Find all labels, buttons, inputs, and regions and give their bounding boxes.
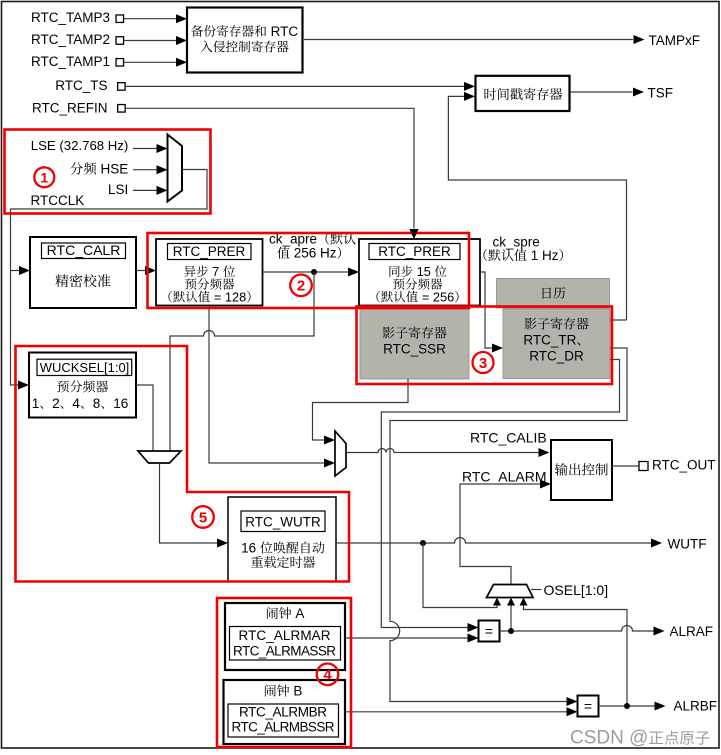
annotation red box 4 alarms	[217, 598, 351, 747]
svg-text:RTC_ALRMASSR: RTC_ALRMASSR	[233, 643, 336, 658]
wire HSE to mux	[133, 169, 157, 171]
svg-text:RTC_REFIN: RTC_REFIN	[32, 100, 108, 115]
wire RTCCLK net	[11, 170, 208, 386]
svg-text:16: 16	[241, 541, 260, 556]
svg-text:RTC_ALRMAR: RTC_ALRMAR	[239, 628, 331, 643]
svg-text:TAMPxF: TAMPxF	[649, 33, 701, 48]
pin RTC_REFIN	[118, 105, 126, 113]
wire RTC_TAMP2 to backup box	[124, 40, 177, 42]
wire calendar out to timestamp riser	[610, 319, 627, 321]
wire ALRBF output	[599, 705, 656, 707]
wire LSE to mux	[133, 148, 157, 150]
mux OSEL output selector	[487, 585, 534, 598]
wire ck_apre tap to wakeup mux	[170, 272, 314, 451]
block WUCKSEL prescaler (预分频器 1 2 4 8 16)	[29, 353, 136, 418]
svg-text:ALRAF: ALRAF	[670, 624, 714, 639]
wire ALRA flag to OSEL	[510, 605, 512, 631]
pin RTC_TAMP1	[116, 59, 124, 67]
comparator alarm A	[479, 621, 500, 642]
svg-text:LSE (32.768 Hz): LSE (32.768 Hz)	[31, 138, 129, 153]
svg-text:RTC_TR: RTC_TR	[523, 333, 576, 348]
svg-text:RTC_SSR: RTC_SSR	[383, 342, 446, 357]
svg-text:RTC_CALIB: RTC_CALIB	[470, 430, 547, 446]
svg-text:2: 2	[52, 396, 60, 411]
wire LSI to mux	[133, 189, 157, 191]
annotation red box 2 prescalers	[148, 233, 470, 308]
block alarm B (闹钟B RTC_ALRMBR RTC_ALRMBSSR)	[224, 680, 346, 744]
wire ALRAF output	[500, 626, 655, 631]
wire RTC_REFIN to sync prescaler	[125, 108, 414, 228]
wire calibration to async prescaler	[136, 270, 146, 272]
block shadow register RTC_SSR (影子寄存器)	[360, 309, 469, 379]
pin RTC_TAMP2	[116, 37, 124, 45]
svg-text:RTC_OUT: RTC_OUT	[652, 457, 716, 472]
block backup registers and RTC tamper control (备份寄存器和RTC入侵控制寄存器)	[187, 8, 303, 73]
mux clock source selector	[168, 135, 183, 202]
wire RTC_ALARM from OSEL mux	[460, 484, 540, 585]
svg-text:RTC_TAMP3: RTC_TAMP3	[31, 10, 110, 25]
junction ALRAF tap	[508, 628, 514, 634]
svg-text:RTC_ALRMBR: RTC_ALRMBR	[239, 704, 327, 719]
block timestamp register (时间戳寄存器)	[476, 76, 570, 111]
svg-text:1 Hz: 1 Hz	[527, 248, 559, 263]
wire SSR to calib mux	[313, 379, 409, 440]
pin RTC_OUT	[639, 462, 648, 471]
svg-text:WUTF: WUTF	[668, 536, 707, 551]
svg-text:RTC_WUTR: RTC_WUTR	[245, 514, 321, 529]
junction ALRBF tap	[624, 703, 630, 709]
svg-text:RTC: RTC	[267, 24, 299, 39]
wire WUCKSEL out to wakeup mux	[136, 385, 153, 451]
wire alarm A to comparator	[346, 637, 468, 639]
svg-text:LSI: LSI	[108, 182, 128, 197]
wire ck_apre	[263, 271, 349, 273]
watermark CSDN	[570, 728, 648, 749]
wire calendar to timestamp	[448, 96, 626, 320]
wire calendar out2 to alarm B compare	[390, 348, 627, 702]
svg-text:3: 3	[479, 355, 487, 372]
wire ck_spre to calendar	[480, 272, 492, 348]
svg-text:RTC_DR: RTC_DR	[529, 349, 584, 364]
comparator alarm B	[578, 696, 599, 717]
svg-text:RTC_CALR: RTC_CALR	[47, 242, 121, 258]
wire async direct to calib mux	[209, 306, 325, 464]
wire WUTF output	[336, 538, 651, 544]
annotation red box 5 wakeup unit	[16, 346, 350, 582]
junction ck_apre	[311, 269, 317, 275]
block RTC_WUTR wakeup timer (16位唤醒自动重载定时器)	[228, 497, 336, 582]
annotation red box 1 clock sources	[5, 130, 211, 214]
wire calendar out3 to alarm A compare	[381, 360, 619, 628]
svg-text:=: =	[485, 623, 493, 639]
svg-text:B: B	[290, 684, 303, 699]
svg-text:5: 5	[199, 509, 207, 526]
circled number 5	[192, 506, 214, 528]
wire ALRB flag to OSEL	[524, 605, 628, 706]
circled number 3	[473, 352, 494, 373]
svg-text:=: =	[584, 698, 592, 714]
block calendar (日历)	[497, 279, 610, 309]
block output control (输出控制)	[551, 440, 612, 500]
svg-text:OSEL[1:0]: OSEL[1:0]	[544, 582, 609, 598]
svg-text:RTC_TAMP1: RTC_TAMP1	[31, 54, 110, 69]
pin RTC_TS	[118, 83, 126, 91]
svg-text:CSDN @: CSDN @	[570, 728, 648, 749]
svg-text:1: 1	[32, 396, 40, 411]
junction WUTF tap	[420, 540, 426, 546]
svg-text:A: A	[292, 606, 305, 621]
svg-text:16: 16	[113, 396, 128, 411]
wire RTCCLK branch to calibration	[11, 270, 20, 272]
svg-text:RTCCLK: RTCCLK	[31, 193, 85, 208]
svg-text:WUCKSEL[1:0]: WUCKSEL[1:0]	[40, 360, 130, 375]
svg-text:7: 7	[209, 264, 223, 279]
wire wakeup mux out to RTC_WUTR	[160, 463, 218, 543]
svg-text:HSE: HSE	[97, 162, 129, 177]
circled number 4	[317, 664, 339, 686]
block RTC_PRER sync 15-bit prescaler (同步15位预分频器)	[359, 239, 480, 306]
wire WUT flag to OSEL	[423, 543, 497, 608]
svg-text:4: 4	[72, 396, 80, 411]
wire alarm B to comparator	[346, 711, 567, 713]
svg-text:= 128: = 128	[210, 289, 246, 304]
svg-text:RTC_TAMP2: RTC_TAMP2	[31, 32, 110, 47]
svg-text:RTC_PRER: RTC_PRER	[378, 244, 451, 259]
node HSE label	[70, 162, 83, 174]
wire RTC_CALIB to output control	[346, 449, 539, 453]
svg-text:= 256: = 256	[418, 289, 454, 304]
block alarm A (闹钟A RTC_ALRMAR RTC_ALRMASSR)	[225, 603, 345, 670]
svg-text:RTC_TS: RTC_TS	[55, 78, 107, 93]
svg-text:256 Hz: 256 Hz	[290, 246, 337, 261]
block RTC_PRER async 7-bit prescaler (异步7位预分频器)	[156, 239, 263, 306]
svg-text:RTC_ALRMBSSR: RTC_ALRMBSSR	[232, 720, 335, 735]
svg-text:1: 1	[40, 169, 48, 185]
wire RTC_TAMP1 to backup box	[124, 61, 177, 63]
svg-text:RTC_ALARM: RTC_ALARM	[462, 469, 547, 485]
svg-text:2: 2	[297, 278, 305, 295]
svg-text:TSF: TSF	[648, 86, 674, 101]
wire RTC_OUT	[612, 465, 639, 467]
mux calibration output selector	[335, 431, 346, 476]
circled number 2	[290, 275, 312, 297]
wire RTC_TS to timestamp box	[125, 85, 464, 87]
svg-text:ALRBF: ALRBF	[674, 698, 718, 713]
block shadow registers RTC_TR RTC_DR (影子寄存器)	[503, 309, 610, 379]
pin RTC_TAMP3	[116, 15, 124, 23]
wire RTC_REFIN arrowhead over red box	[410, 229, 419, 239]
label OSEL	[531, 589, 542, 591]
wire TAMPxF output	[304, 39, 633, 41]
block RTC_CALR precision calibration (精密校准)	[30, 237, 136, 308]
circled number 1	[34, 167, 54, 187]
annotation red box 3 shadow registers	[357, 307, 613, 385]
wire RTC_TAMP3 to backup box	[124, 18, 177, 20]
wire TSF output	[570, 91, 633, 93]
svg-text:8: 8	[93, 396, 101, 411]
svg-text:15: 15	[413, 264, 434, 279]
svg-text:4: 4	[323, 667, 332, 684]
mux wakeup clock selector	[138, 451, 181, 463]
svg-text:RTC_PRER: RTC_PRER	[173, 244, 246, 259]
